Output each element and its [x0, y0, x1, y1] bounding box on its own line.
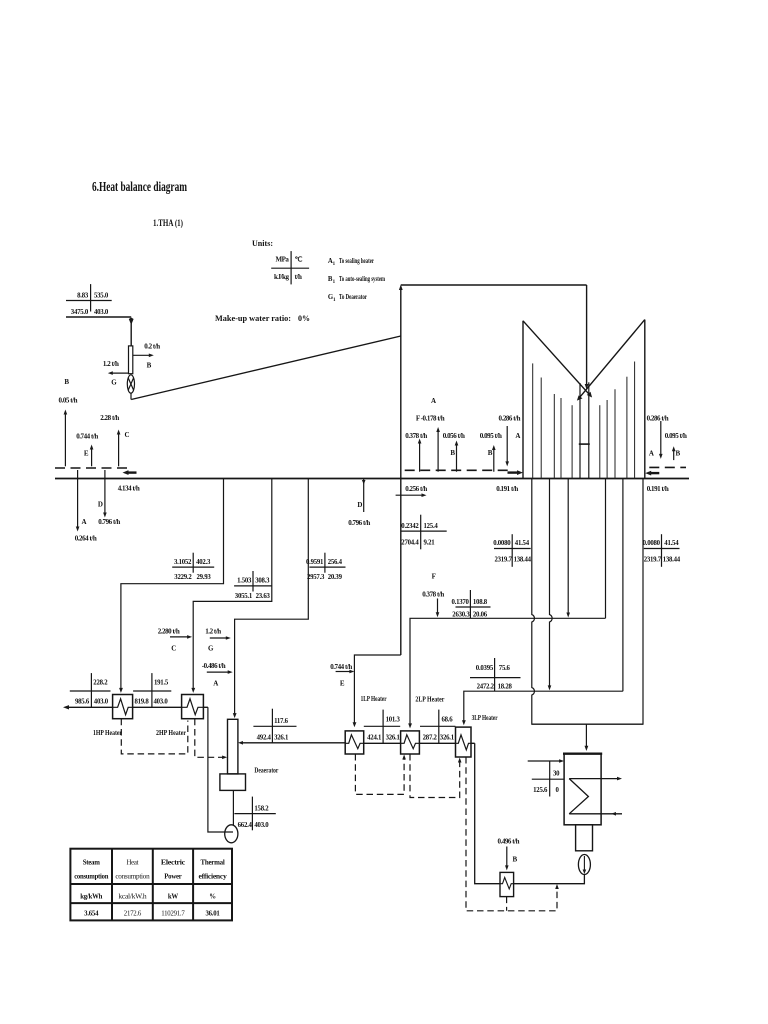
- svg-text:MPa: MPa: [275, 256, 289, 264]
- label 0.191 t/h right: [647, 485, 669, 493]
- label 0.256 t/h: [405, 485, 427, 493]
- feed pump: [225, 825, 238, 843]
- label 0.056 t/h B: [443, 432, 465, 457]
- right gland arrow A down: [659, 421, 663, 459]
- svg-text:125.6: 125.6: [533, 787, 548, 794]
- svg-text:2704.4: 2704.4: [401, 539, 419, 546]
- gland arrow D down-left: [98, 470, 120, 526]
- arrow D right: [362, 479, 366, 512]
- feedwater into deaerator: [238, 741, 345, 745]
- svg-text:0.286 t/h: 0.286 t/h: [498, 415, 520, 423]
- svg-text:1HP Heater: 1HP Heater: [93, 730, 122, 737]
- svg-text:30: 30: [553, 771, 560, 778]
- label 1LP Heater: [361, 696, 387, 703]
- deaerator column: [228, 719, 238, 774]
- extraction header line B (no.7): [462, 691, 623, 725]
- svg-text:2.28 t/h: 2.28 t/h: [100, 414, 119, 422]
- deaerator tank: [220, 774, 246, 791]
- pump table (158.2): [234, 797, 275, 831]
- svg-text:A: A: [649, 450, 654, 458]
- extraction pipe to line A with arrow: [566, 479, 570, 618]
- svg-text:Steam: Steam: [83, 860, 100, 867]
- arrow G into deaerator pipe: [210, 636, 231, 640]
- 2HP drain to deaerator dashed: [195, 719, 227, 759]
- svg-text:Electric: Electric: [161, 860, 185, 867]
- mid gland dashed header: [405, 469, 509, 471]
- deaerator steam pipe: [233, 479, 308, 719]
- 1HP drain to 2HP dashed: [121, 719, 188, 754]
- svg-text:D: D: [98, 501, 103, 509]
- label 0.496 t/h B with arrow: [497, 838, 519, 871]
- feedwater table 1LP-2LP (101.3): [364, 710, 401, 744]
- svg-text:0.796 t/h: 0.796 t/h: [98, 518, 120, 526]
- svg-text:0.1370: 0.1370: [451, 599, 469, 606]
- svg-text:4.134 t/h: 4.134 t/h: [118, 485, 140, 493]
- svg-text:0.05 t/h: 0.05 t/h: [59, 397, 78, 405]
- svg-text:F: F: [432, 573, 436, 581]
- svg-text:326.1: 326.1: [440, 734, 455, 741]
- svg-text:Thermal: Thermal: [201, 860, 225, 867]
- svg-text:3.654: 3.654: [84, 911, 99, 918]
- svg-text:D: D: [357, 501, 362, 509]
- svg-text:41.54: 41.54: [664, 540, 679, 547]
- svg-text:0.496 t/h: 0.496 t/h: [497, 838, 519, 846]
- HP extraction 1 pipe: [119, 479, 223, 693]
- 1LP drain to 2LP dashed: [355, 754, 406, 794]
- label 3LP Heater: [472, 715, 498, 722]
- gland arrow E: [90, 445, 94, 467]
- svg-text:29.93: 29.93: [197, 574, 212, 581]
- svg-text:326.1: 326.1: [386, 734, 401, 741]
- arrow 0.256 right: [396, 493, 427, 497]
- svg-text:0.191 t/h: 0.191 t/h: [647, 485, 669, 493]
- svg-text:A: A: [515, 432, 520, 440]
- LP turbine right casing edge: [644, 320, 646, 479]
- deaerator downcomer: [232, 790, 234, 825]
- label F 0.378 t/h: [422, 573, 444, 599]
- feedwater table 2LP-3LP (68.6): [420, 710, 455, 744]
- svg-text:℃: ℃: [295, 256, 303, 264]
- svg-text:403.0: 403.0: [154, 699, 169, 706]
- gland steam condenser: [500, 872, 514, 896]
- deaerator inlet table (117.6): [253, 709, 296, 744]
- svg-text:2472.2: 2472.2: [477, 684, 495, 691]
- LP left flow diagonal: [523, 321, 592, 398]
- svg-text:0.2 t/h: 0.2 t/h: [144, 343, 160, 351]
- table main steam to turbine (0.2342): [401, 515, 447, 550]
- svg-text:0.0080: 0.0080: [493, 540, 511, 547]
- condensate line to gland condenser: [514, 874, 585, 884]
- bold arrow into LP left: [508, 470, 524, 475]
- svg-text:41.54: 41.54: [515, 540, 530, 547]
- svg-text:403.0: 403.0: [94, 699, 109, 706]
- control valve circle: [127, 375, 134, 400]
- svg-text:To sealing heater: To sealing heater: [339, 258, 374, 265]
- arrow F into line A: [436, 599, 440, 618]
- svg-text:36.01: 36.01: [205, 911, 220, 918]
- feedwater table boiler side (228.2): [70, 673, 111, 708]
- svg-text:158.2: 158.2: [254, 805, 269, 812]
- svg-text:326.1: 326.1: [274, 735, 289, 742]
- svg-text:A: A: [82, 518, 87, 526]
- extraction 1 table (3.1052): [172, 553, 214, 581]
- svg-text:2319.7: 2319.7: [644, 557, 662, 564]
- svg-text:C: C: [125, 431, 130, 439]
- svg-text:0.286 t/h: 0.286 t/h: [647, 415, 669, 423]
- svg-text:kJ/kg: kJ/kg: [274, 273, 289, 281]
- svg-text:Units:: Units:: [252, 238, 273, 248]
- LP center gland: [579, 382, 590, 478]
- LP blade hatch lines right: [600, 362, 635, 479]
- LP blade hatch lines left: [533, 363, 572, 478]
- svg-text:3229.2: 3229.2: [174, 574, 192, 581]
- svg-text:kcal/kW.h: kcal/kW.h: [118, 894, 147, 901]
- svg-text:2957.3: 2957.3: [307, 574, 325, 581]
- HP extraction 2 pipe: [191, 479, 271, 693]
- arrow C into extraction 2: [170, 635, 192, 639]
- svg-text:0.744 t/h: 0.744 t/h: [76, 433, 98, 441]
- gland arrow A down-left: [75, 470, 97, 543]
- pump discharge to 2HP heater: [208, 707, 233, 832]
- label 2.280 t/h C: [158, 628, 180, 653]
- svg-text:t/h: t/h: [295, 273, 302, 281]
- label 1HP Heater: [93, 730, 122, 737]
- right gland label 0.286 t/h A: [647, 415, 669, 458]
- label 0.191 t/h left: [496, 485, 518, 493]
- svg-text:287.2: 287.2: [423, 734, 438, 741]
- svg-text:117.6: 117.6: [274, 718, 289, 725]
- condensate riser from gland condenser to 3LP: [475, 743, 500, 883]
- svg-text:0.0395: 0.0395: [476, 665, 494, 672]
- 1LP heater steam pipe: [353, 655, 401, 727]
- LP exhaust table left (0.0080): [493, 534, 531, 567]
- condenser shell: [563, 754, 602, 825]
- svg-text:8.83: 8.83: [77, 293, 89, 300]
- svg-text:138.44: 138.44: [663, 557, 681, 564]
- svg-text:consumption: consumption: [115, 874, 150, 881]
- mid gland arrow A down: [505, 426, 509, 466]
- svg-text:2LP Heater: 2LP Heater: [415, 697, 444, 704]
- svg-text:308.3: 308.3: [255, 577, 270, 584]
- main steam parameter table: [66, 284, 112, 316]
- svg-text:138.44: 138.44: [514, 557, 532, 564]
- LP right flow diagonal: [577, 320, 645, 401]
- feedwater table between HP heaters (191.5): [133, 673, 171, 708]
- svg-text:0%: 0%: [298, 314, 310, 323]
- svg-text:3.1052: 3.1052: [174, 559, 192, 566]
- svg-text:125.4: 125.4: [424, 523, 439, 530]
- svg-text:-0.486 t/h: -0.486 t/h: [202, 662, 226, 670]
- label F -0.178 t/h: [416, 415, 445, 423]
- label 0.744 t/h E: [76, 433, 98, 458]
- svg-text:1.2 t/h: 1.2 t/h: [205, 628, 221, 636]
- condensate pump: [578, 855, 590, 875]
- steam chest / valve body: [129, 346, 133, 374]
- svg-text:819.8: 819.8: [134, 699, 149, 706]
- svg-text:0.744 t/h: 0.744 t/h: [330, 663, 352, 671]
- svg-text:68.6: 68.6: [442, 716, 454, 723]
- svg-text:108.8: 108.8: [473, 599, 488, 606]
- label 2.28 t/h C: [100, 414, 129, 439]
- extraction 6 table (0.1370): [451, 590, 490, 618]
- label 0.744 t/h E: [330, 663, 352, 688]
- mid gland arrow 2: [455, 441, 459, 472]
- svg-text:0.056 t/h: 0.056 t/h: [443, 432, 465, 440]
- svg-text:75.6: 75.6: [499, 665, 511, 672]
- label A mid gland: [431, 397, 436, 405]
- label 2LP Heater: [415, 697, 444, 704]
- condenser exhaust header line C: [532, 724, 643, 751]
- legend A1 B1 G1: [328, 258, 385, 303]
- 2LP drain to 3LP dashed: [410, 754, 462, 798]
- svg-text:kg/kWh: kg/kWh: [80, 894, 102, 901]
- svg-text:3475.0: 3475.0: [71, 309, 89, 316]
- svg-text:efficiency: efficiency: [199, 874, 228, 881]
- svg-text:662.4: 662.4: [238, 822, 253, 829]
- condenser tube bundle: [569, 777, 622, 816]
- results table: [70, 849, 232, 921]
- label D 0.796 t/h right: [348, 501, 370, 527]
- svg-text:1.503: 1.503: [237, 577, 252, 584]
- 1HP heater: [113, 695, 133, 719]
- main steam pipe to turbine inlet: [66, 317, 134, 346]
- extraction 7 table (0.0395): [470, 658, 521, 691]
- svg-text:191.5: 191.5: [154, 680, 169, 687]
- svg-text:Power: Power: [164, 874, 181, 881]
- svg-text:20.39: 20.39: [328, 574, 343, 581]
- svg-text:0.095 t/h: 0.095 t/h: [480, 432, 502, 440]
- make-up water ratio: [215, 314, 310, 323]
- cooling water inlet pipe: [528, 759, 564, 763]
- svg-text:To auto-sealing system: To auto-sealing system: [339, 276, 385, 283]
- arrow E into 1LP pipe: [336, 670, 355, 674]
- LP feedwater line: [364, 742, 475, 744]
- svg-text:6.Heat balance diagram: 6.Heat balance diagram: [92, 179, 188, 194]
- left gland dashed header: [55, 467, 129, 469]
- mid gland arrow 3: [492, 445, 496, 472]
- 3LP drain to condensate dashed: [466, 757, 559, 911]
- svg-text:0.9591: 0.9591: [306, 559, 324, 566]
- right gland dashed header: [649, 466, 686, 468]
- right gland arrow B up: [672, 446, 676, 460]
- extraction pipe right to line A: [605, 479, 607, 619]
- svg-text:403.0: 403.0: [94, 309, 109, 316]
- main shaft line: [55, 478, 689, 480]
- svg-text:0.264 t/h: 0.264 t/h: [75, 535, 97, 543]
- 1.2 t/h G leakoff arrow: [103, 360, 129, 387]
- 2LP heater: [401, 731, 420, 754]
- svg-text:0.378 t/h: 0.378 t/h: [405, 432, 427, 440]
- svg-text:2HP Heater: 2HP Heater: [156, 730, 186, 737]
- svg-text:424.1: 424.1: [367, 734, 382, 741]
- svg-text:0.378 t/h: 0.378 t/h: [422, 591, 444, 599]
- svg-text:consumption: consumption: [74, 874, 108, 881]
- label 0.095 t/h B: [480, 432, 502, 457]
- label 1.2 t/h G: [205, 628, 221, 653]
- extraction 3 table (0.9591): [306, 553, 346, 581]
- extraction pipe to line B (hops line A): [548, 479, 552, 691]
- cooling water table (30 / 125.6 0): [532, 761, 564, 797]
- label Deaerator: [254, 768, 278, 775]
- crossover pipe top: [401, 285, 589, 390]
- svg-text:Make-up water ratio:: Make-up water ratio:: [215, 314, 291, 323]
- gland arrow C: [117, 430, 121, 467]
- svg-text:%: %: [209, 894, 216, 901]
- label 0.378 t/h: [405, 432, 427, 440]
- svg-text:Heat: Heat: [126, 860, 138, 867]
- HP turbine slanted top edge: [131, 336, 401, 400]
- HP feedwater line with boiler arrow: [63, 705, 208, 709]
- label -0.486 t/h A: [202, 662, 226, 688]
- extraction pipe to condenser left (hops lines A and B): [532, 479, 643, 725]
- svg-text:Deaerator: Deaerator: [254, 768, 278, 775]
- condenser hotwell: [576, 825, 593, 851]
- gland arrow B: [64, 410, 68, 467]
- svg-text:0.796 t/h: 0.796 t/h: [348, 519, 370, 527]
- 0.2 t/h B leakoff arrow: [133, 343, 161, 370]
- extraction pipe right to line B: [622, 479, 624, 692]
- gland condenser drain dashed: [506, 897, 508, 911]
- HP turbine left edge / exhaust riser: [399, 285, 403, 656]
- svg-text:0.256 t/h: 0.256 t/h: [405, 485, 427, 493]
- label 0.286 t/h A: [498, 415, 520, 441]
- svg-text:23.63: 23.63: [256, 593, 271, 600]
- label B 0.05 t/h: [59, 378, 78, 405]
- svg-text:A: A: [431, 397, 436, 405]
- svg-text:2319.7: 2319.7: [494, 557, 512, 564]
- mid gland arrow F tall: [436, 427, 440, 472]
- svg-text:0.095 t/h: 0.095 t/h: [665, 432, 687, 440]
- units cross table: [271, 251, 309, 284]
- bold arrow into LP right: [645, 471, 659, 476]
- extraction 2 table (1.503): [234, 571, 272, 600]
- 2HP heater: [182, 695, 204, 719]
- svg-text:2630.3: 2630.3: [452, 611, 470, 618]
- svg-text:985.6: 985.6: [75, 699, 90, 706]
- svg-text:To Deaerator: To Deaerator: [339, 294, 367, 301]
- label 2HP Heater: [156, 730, 186, 737]
- extraction header line A (no.6): [408, 618, 605, 728]
- svg-text:A: A: [213, 680, 218, 688]
- svg-text:18.28: 18.28: [498, 684, 513, 691]
- LP turbine left casing edge: [522, 321, 524, 479]
- svg-text:0.2342: 0.2342: [401, 523, 419, 530]
- 1LP heater: [345, 731, 364, 754]
- svg-text:256.4: 256.4: [328, 559, 343, 566]
- title: [92, 179, 273, 248]
- arrow A into deaerator pipe: [207, 670, 233, 674]
- right gland label 0.095 t/h B: [665, 432, 687, 457]
- bold arrow into turbine inlet: [123, 470, 137, 475]
- mid gland arrow 1: [418, 439, 422, 472]
- svg-text:402.3: 402.3: [196, 559, 211, 566]
- svg-text:1LP Heater: 1LP Heater: [361, 696, 387, 703]
- svg-text:3055.1: 3055.1: [235, 593, 253, 600]
- svg-text:403.0: 403.0: [254, 822, 269, 829]
- svg-text:0.0080: 0.0080: [643, 540, 661, 547]
- svg-text:C: C: [171, 645, 176, 653]
- svg-text:9.21: 9.21: [424, 539, 436, 546]
- svg-text:2.280 t/h: 2.280 t/h: [158, 628, 180, 636]
- svg-text:kW: kW: [168, 894, 179, 901]
- svg-text:492.4: 492.4: [257, 735, 272, 742]
- svg-text:20.06: 20.06: [473, 611, 488, 618]
- svg-text:F -0.178 t/h: F -0.178 t/h: [416, 415, 445, 423]
- svg-text:535.0: 535.0: [94, 293, 109, 300]
- svg-text:2172.6: 2172.6: [124, 911, 142, 918]
- 3LP heater: [456, 727, 472, 757]
- svg-text:110291.7: 110291.7: [161, 911, 185, 918]
- svg-text:1.2 t/h: 1.2 t/h: [103, 360, 119, 368]
- svg-text:228.2: 228.2: [93, 680, 108, 687]
- svg-text:3LP Heater: 3LP Heater: [472, 715, 498, 722]
- svg-text:0.191 t/h: 0.191 t/h: [496, 485, 518, 493]
- svg-text:1.THA (1): 1.THA (1): [153, 218, 183, 228]
- label 4.134 t/h: [118, 485, 140, 493]
- svg-text:101.3: 101.3: [386, 716, 401, 723]
- LP exhaust table right (0.0080): [643, 534, 681, 567]
